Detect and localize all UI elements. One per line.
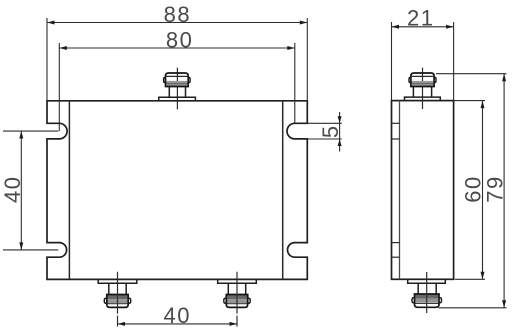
dimension 40 left extension line bottom — [3, 249, 58, 251]
bottom connector J2 right bump — [128, 298, 131, 303]
dimension 40 left arrow bottom — [19, 242, 23, 250]
top connector J1 centerline — [176, 68, 178, 110]
dimension 79 arrow top — [502, 74, 506, 82]
dimension 40 bottom arrow left — [118, 322, 126, 326]
top connector J1 nut body — [166, 73, 189, 87]
dimension 21 line — [392, 26, 454, 28]
top connector J1 nut inner line — [166, 75, 189, 77]
dimension 79 extension line bottom — [439, 307, 507, 309]
dimension 21 arrow left — [392, 25, 400, 29]
dimension 60 extension line top — [454, 100, 485, 102]
dimension 80 line — [59, 47, 294, 49]
top connector J1 neck — [169, 87, 185, 98]
dimension 80 arrow right — [287, 46, 295, 50]
dimension 5 extension line bottom — [307, 138, 342, 140]
bottom connector J2 left bump — [104, 298, 107, 303]
side top connector J4 left bump — [409, 77, 411, 82]
bottom connector J2 flange — [98, 279, 137, 283]
bottom connector J3 nut body — [226, 295, 247, 308]
side view body outline — [392, 101, 454, 280]
dimension 88 arrow left — [47, 21, 55, 25]
dimension 79 arrow bottom — [502, 300, 506, 308]
side view slot edge tick top lower — [392, 138, 400, 140]
side bottom connector J5 right bump — [439, 298, 442, 303]
dimension 21 arrow right — [446, 25, 454, 29]
bottom connector J3 right bump — [248, 298, 251, 303]
top connector J1 right bump — [188, 77, 190, 82]
side view slot edge tick bottom lower — [392, 256, 400, 258]
front body right edge — [282, 101, 284, 280]
side bottom connector J5 centerline — [426, 272, 428, 313]
side view flange plate inner edge — [399, 101, 401, 280]
bottom connector J2 nut shading — [107, 295, 128, 299]
side view slot edge tick top upper — [392, 122, 400, 124]
dimension 21 extension line right — [453, 22, 455, 101]
dimension 40 bottom arrow right — [230, 322, 238, 326]
dimension 88 extension line left — [46, 18, 48, 101]
bottom connector J2 nut body — [107, 295, 128, 308]
dimension 40 left extension line top — [3, 130, 58, 132]
top connector J1 left bump — [164, 77, 166, 82]
side bottom connector J5 flange — [408, 279, 446, 283]
front view flange plate outline with four open mounting slots — [47, 101, 307, 280]
svg-text:5: 5 — [318, 124, 343, 138]
dimension 40 left line — [20, 131, 22, 250]
side top connector J4 nut body — [411, 73, 434, 87]
dimension 80 extension line left — [58, 43, 60, 131]
dimension 80 arrow left — [59, 46, 67, 50]
svg-text:79: 79 — [483, 175, 508, 202]
bottom connector J2 centerline — [117, 272, 119, 327]
side bottom connector J5 neck — [418, 283, 436, 294]
side top connector J4 centerline — [422, 68, 424, 109]
front body left edge — [68, 101, 70, 280]
bottom connector J3 centerline — [236, 272, 238, 327]
dimension 5 arrow bottom — [338, 139, 342, 146]
dimension 88 line — [47, 22, 307, 24]
dimension 60 extension line bottom — [455, 278, 485, 280]
svg-text:88: 88 — [164, 2, 191, 27]
svg-text:80: 80 — [166, 28, 193, 53]
svg-text:40: 40 — [163, 303, 190, 328]
dimension 88 extension line right — [306, 18, 308, 101]
dimension 60 line — [482, 101, 484, 280]
dimension 79 extension line top — [436, 73, 507, 75]
dimension 5 extension line top — [307, 122, 342, 124]
bottom connector J3 left bump — [224, 298, 227, 303]
dimension 21 extension line left — [391, 22, 393, 101]
side top connector J4 nut inner line — [411, 75, 434, 77]
dimension 5 line — [339, 112, 341, 152]
side view slot edge tick bottom upper — [392, 242, 400, 244]
bottom connector J3 flange — [218, 279, 257, 283]
side top connector J4 neck — [413, 87, 431, 98]
side bottom connector J5 left bump — [412, 298, 415, 303]
top connector J1 flange — [159, 97, 196, 101]
bottom connector J3 neck — [228, 283, 245, 294]
dimension 40 left arrow top — [19, 131, 23, 139]
bottom connector J3 nut shading — [227, 295, 248, 299]
svg-text:40: 40 — [0, 176, 25, 203]
side top connector J4 right bump — [434, 77, 436, 82]
bottom connector J2 neck — [109, 283, 126, 294]
dimension 5 arrow top — [338, 116, 342, 123]
dimension 60 arrow bottom — [481, 272, 485, 280]
side bottom connector J5 nut body — [415, 294, 440, 307]
side bottom connector J5 nut shading — [415, 294, 439, 298]
dimension 80 extension line right — [294, 43, 296, 123]
dimension 40 bottom line — [118, 323, 238, 325]
top connector J1 nut thread band — [166, 81, 187, 86]
dimension 88 arrow right — [300, 21, 308, 25]
dimension 60 arrow top — [481, 101, 485, 109]
dimension 79 line — [503, 74, 505, 308]
side top connector J4 flange — [405, 97, 441, 101]
svg-text:21: 21 — [407, 6, 434, 31]
side top connector J4 nut thread band — [412, 81, 434, 86]
